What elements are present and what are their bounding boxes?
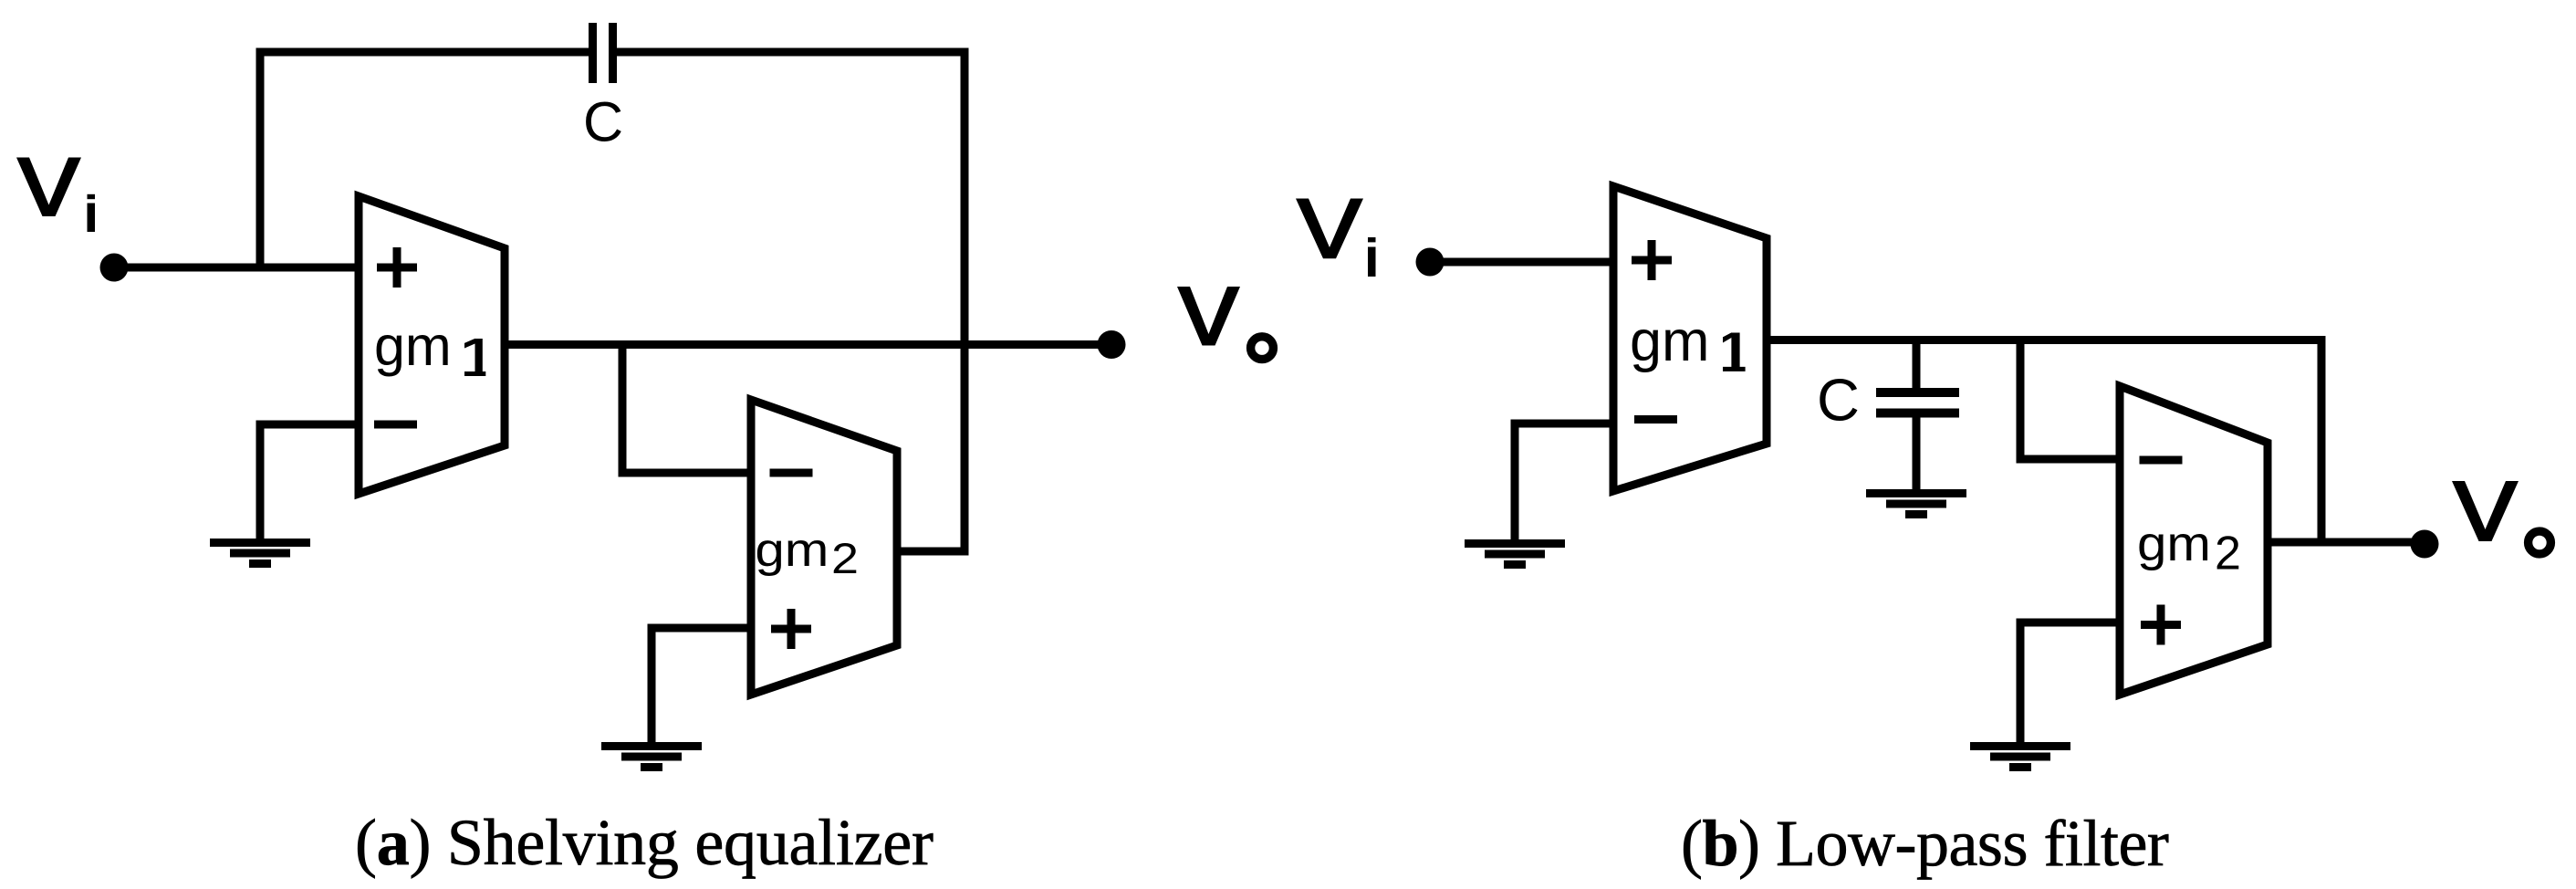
label Vi (b)	[1296, 199, 1376, 277]
pin - input sign of gm1 (a)	[374, 421, 417, 429]
pin - input sign of gm2 (a)	[770, 469, 813, 477]
label Vo (b)	[2452, 481, 2550, 554]
wire Vi input to gm1 + input (a)	[114, 264, 359, 272]
op-amp OTA gm2 (a)	[751, 400, 897, 695]
op-amp OTA gm1 (b)	[1613, 186, 1767, 491]
wire gm2 + input to ground (b)	[2020, 622, 2120, 744]
wire feedback left vertical from input node to capacitor C (a)	[260, 52, 589, 267]
label Vi (a)	[16, 158, 95, 233]
capacitor C (b)	[1876, 392, 1959, 413]
node Vi (b)	[1416, 248, 1444, 277]
pin + input sign of gm1 (a)	[377, 247, 417, 288]
wire capacitor C right plate to output node, right vertical down to gm2 output (a)	[617, 52, 965, 551]
svg-text:gm: gm	[374, 315, 452, 377]
wire gm2 + input to ground (a)	[652, 628, 751, 744]
node Vo (b)	[2411, 530, 2439, 559]
pin - input sign of gm2 (b)	[2140, 456, 2183, 465]
node Vi (a)	[100, 254, 129, 282]
pin - input sign of gm1 (b)	[1634, 415, 1677, 424]
pin + input sign of gm1 (b)	[1632, 240, 1672, 280]
wire gm1 output node with feedback down-right (b)	[1767, 340, 2321, 543]
caption (a) Shelving equalizer	[355, 805, 933, 881]
wire gm1 - input to ground (a)	[260, 424, 359, 540]
ground of capacitor C (b)	[1866, 489, 1966, 518]
op-amp OTA gm1 (a)	[359, 196, 505, 494]
op-amp OTA gm2 (b)	[2120, 386, 2268, 695]
wire gm1 output to Vo node (a)	[505, 340, 1111, 349]
label gm1 of op-amp (b)	[1630, 309, 1746, 373]
caption (b) Low-pass filter	[1681, 806, 2168, 882]
wire gm1 - input to ground (b)	[1515, 424, 1613, 541]
capacitor C (a)	[593, 23, 613, 83]
node Vo (a)	[1098, 330, 1126, 359]
label gm2 of op-amp (a)	[755, 524, 859, 582]
wire gm2 output to Vo node (b)	[2268, 539, 2425, 547]
label Vo (a)	[1177, 287, 1273, 360]
svg-text:C: C	[583, 91, 623, 153]
ground of gm1 - input (b)	[1465, 539, 1565, 569]
label gm2 of op-amp (b)	[2137, 517, 2241, 580]
wire Vi input to gm1 + input (b)	[1430, 258, 1613, 267]
ground of gm2 + input (a)	[601, 742, 702, 771]
label gm1 of op-amp (a)	[374, 315, 485, 377]
pin + input sign of gm2 (b)	[2141, 605, 2181, 645]
svg-text:gm: gm	[755, 524, 829, 577]
svg-text:gm: gm	[1630, 309, 1710, 373]
wire capacitor C top stem (b)	[1913, 340, 1921, 391]
svg-text:C: C	[1817, 367, 1860, 434]
svg-text:2: 2	[831, 534, 859, 582]
ground of gm1 - input (a)	[210, 539, 310, 568]
ground of gm2 + input (b)	[1970, 742, 2070, 771]
svg-text:gm: gm	[2137, 517, 2211, 571]
wire capacitor C bottom stem to ground (b)	[1913, 415, 1921, 491]
wire output node down to gm2 - input (b)	[2020, 340, 2120, 460]
wire output node down to gm2 - input (a)	[622, 345, 751, 474]
pin + input sign of gm2 (a)	[771, 609, 811, 649]
svg-text:2: 2	[2215, 528, 2241, 580]
